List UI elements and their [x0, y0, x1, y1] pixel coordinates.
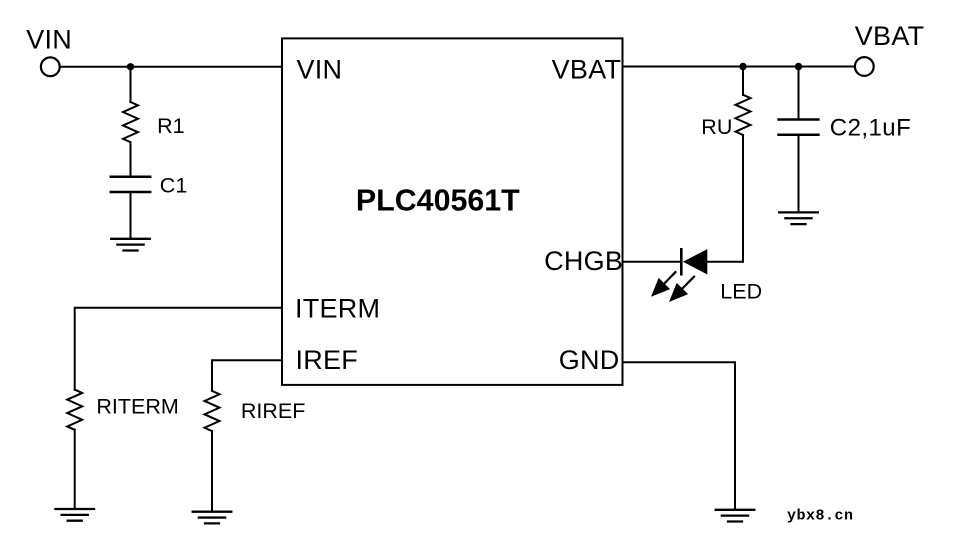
- wire chip ITERM to RITERM: [75, 308, 282, 390]
- svg-text:GND: GND: [559, 345, 620, 375]
- svg-text:C2,1uF: C2,1uF: [830, 115, 911, 142]
- wire RITERM to ground: [74, 430, 76, 509]
- ground (RITERM): [55, 509, 94, 521]
- svg-text:LED: LED: [720, 280, 762, 304]
- resistor RIREF: [205, 391, 220, 431]
- wire C1 to ground: [130, 192, 132, 239]
- node junction at C2: [795, 63, 802, 70]
- wire chip IREF to RIREF: [212, 360, 282, 391]
- ground (RIREF): [193, 512, 232, 524]
- svg-text:ybx8.cn: ybx8.cn: [787, 508, 854, 525]
- terminal VIN: [41, 57, 60, 76]
- ground (GND pin): [716, 510, 755, 522]
- svg-text:VIN: VIN: [26, 25, 72, 55]
- svg-text:ITERM: ITERM: [295, 293, 380, 323]
- IC U1 PLC40561T body: [282, 38, 623, 385]
- node junction on VIN net: [127, 63, 134, 70]
- wire RU bottom down to LED net: [742, 135, 744, 262]
- svg-text:RIREF: RIREF: [241, 399, 306, 423]
- ground (C1): [111, 239, 150, 251]
- capacitor C2: [779, 120, 819, 135]
- wire VIN terminal to chip pin VIN: [61, 66, 282, 68]
- svg-text:R1: R1: [157, 114, 184, 138]
- resistor RU: [736, 95, 751, 135]
- wire junction down to C2: [798, 67, 800, 120]
- wire RIREF to ground: [211, 431, 213, 512]
- svg-text:C1: C1: [160, 174, 187, 198]
- wire C2 to ground: [798, 135, 800, 213]
- svg-text:VBAT: VBAT: [552, 54, 622, 84]
- resistor RITERM: [67, 390, 82, 430]
- wire chip VBAT to terminal VBAT: [623, 66, 855, 68]
- svg-text:RITERM: RITERM: [96, 394, 178, 418]
- capacitor C1: [111, 177, 150, 192]
- svg-text:VBAT: VBAT: [855, 21, 925, 51]
- wire chip CHGB to LED cathode: [623, 261, 681, 263]
- svg-text:RU: RU: [701, 115, 732, 139]
- svg-text:PLC40561T: PLC40561T: [356, 184, 520, 218]
- ground (C2): [779, 212, 818, 224]
- svg-text:CHGB: CHGB: [544, 246, 623, 276]
- wire chip GND to ground: [623, 362, 736, 510]
- svg-text:VIN: VIN: [297, 55, 343, 85]
- wire junction down to R1: [130, 67, 132, 102]
- terminal VBAT: [855, 57, 874, 76]
- resistor R1: [123, 102, 138, 142]
- wire junction down to RU: [742, 67, 744, 95]
- wire LED anode to RU net: [707, 261, 743, 263]
- LED D1: [651, 249, 707, 302]
- wire R1 to C1: [130, 142, 132, 177]
- node junction at RU: [739, 63, 746, 70]
- svg-text:IREF: IREF: [296, 345, 359, 375]
